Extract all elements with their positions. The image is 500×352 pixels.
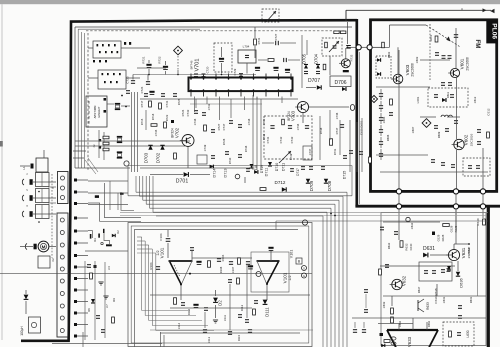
svg-text:C736: C736 [193,118,197,125]
svg-text:D719: D719 [260,165,264,173]
svg-text:V602: V602 [464,134,469,145]
svg-text:R108: R108 [219,266,223,273]
svg-text:V601: V601 [460,58,465,69]
svg-text:L601: L601 [416,96,420,103]
svg-text:D711: D711 [265,168,269,177]
svg-text:C628: C628 [450,225,454,232]
svg-text:V631: V631 [461,247,466,258]
svg-text:R724: R724 [181,109,185,116]
svg-text:C605: C605 [382,116,386,123]
svg-text:D711: D711 [282,163,286,171]
svg-text:C726: C726 [140,86,144,93]
svg-text:L1: L1 [22,166,26,170]
svg-text:R717: R717 [140,100,144,107]
svg-text:R602: R602 [387,51,391,58]
svg-text:R632: R632 [405,243,409,251]
svg-text:R715: R715 [140,118,144,125]
svg-text:L630: L630 [466,330,470,337]
svg-text:BF746: BF746 [190,60,194,69]
svg-text:V101: V101 [283,272,288,283]
svg-text:V702: V702 [175,127,180,138]
svg-text:PL06: PL06 [490,23,497,39]
svg-text:R104: R104 [149,262,153,270]
svg-text:D631: D631 [423,246,435,252]
svg-text:R112: R112 [187,308,191,315]
svg-text:R630: R630 [476,218,480,226]
svg-text:C637: C637 [467,246,471,253]
svg-text:D707: D707 [308,78,320,84]
svg-text:D708: D708 [327,180,332,191]
svg-text:R609: R609 [437,131,441,138]
svg-text:C738: C738 [247,118,251,125]
svg-text:C744: C744 [296,123,300,130]
svg-text:C737: C737 [222,123,226,130]
svg-text:D701: D701 [176,179,189,185]
svg-text:D705: D705 [302,53,307,64]
svg-text:R3: R3 [93,238,97,242]
svg-text:V603: V603 [405,64,410,75]
svg-text:L704: L704 [243,45,250,49]
svg-text:R738: R738 [319,127,323,134]
svg-text:R731: R731 [257,37,261,44]
svg-text:C739: C739 [203,144,207,151]
svg-text:R601: R601 [429,34,433,41]
svg-text:R633: R633 [426,302,430,310]
svg-text:R739: R739 [289,153,293,160]
svg-text:R113: R113 [240,304,244,311]
svg-text:M: M [42,245,46,250]
svg-text:R611: R611 [446,91,450,98]
svg-text:C612: C612 [487,108,491,116]
svg-text:C733: C733 [186,109,190,116]
svg-text:D704: D704 [314,53,319,64]
svg-text:C735: C735 [154,129,158,136]
svg-text:C727: C727 [274,33,278,40]
svg-text:C104: C104 [159,233,163,241]
svg-text:C632: C632 [410,222,414,229]
svg-text:D706: D706 [335,80,347,86]
svg-text:D710: D710 [275,163,279,172]
svg-text:D713: D713 [224,168,228,177]
svg-text:R722: R722 [158,56,162,64]
svg-text:D714: D714 [213,168,217,177]
svg-text:C111: C111 [223,314,227,321]
svg-text:C740: C740 [262,118,266,125]
svg-text:R6: R6 [87,308,91,312]
svg-text:D111: D111 [265,307,270,317]
svg-text:R736: R736 [244,145,248,152]
svg-text:G: G [303,267,305,271]
svg-text:R723: R723 [165,114,169,121]
svg-text:C733: C733 [207,103,211,110]
svg-text:V701: V701 [195,58,201,71]
svg-text:C641: C641 [442,296,446,303]
svg-text:D715: D715 [343,171,347,180]
svg-text:C662: C662 [398,320,402,327]
svg-text:R741: R741 [333,148,337,155]
svg-text:R737: R737 [335,127,339,134]
svg-text:V101: V101 [160,247,165,258]
svg-text:R728: R728 [222,138,226,145]
svg-text:X2: X2 [51,258,55,262]
svg-text:D702: D702 [156,152,161,163]
svg-text:V633: V633 [407,336,412,347]
svg-text:FM: FM [474,40,481,49]
svg-text:C7: C7 [105,304,109,308]
svg-text:100µH: 100µH [20,326,24,336]
svg-text:R641: R641 [469,296,473,303]
svg-text:R727: R727 [217,123,221,130]
svg-text:D636: D636 [459,277,464,287]
svg-text:R733: R733 [350,54,354,61]
svg-text:C743: C743 [290,136,294,143]
svg-text:G: G [303,274,305,278]
svg-text:C742: C742 [279,136,283,143]
svg-text:R628: R628 [441,234,445,241]
svg-text:R662: R662 [427,320,431,327]
svg-text:C746: C746 [335,112,339,119]
svg-text:D712: D712 [275,180,286,185]
svg-text:R632: R632 [387,242,391,249]
svg-text:C741: C741 [266,136,270,143]
svg-text:R730: R730 [228,157,232,164]
svg-text:D2: D2 [218,300,223,306]
svg-text:C4: C4 [107,266,111,270]
svg-text:1/2: 1/2 [288,275,292,280]
svg-text:R115: R115 [237,334,241,341]
svg-text:C113: C113 [207,336,211,343]
svg-text:C629: C629 [437,234,441,241]
svg-text:D717: D717 [296,168,300,176]
svg-text:C723: C723 [126,76,130,84]
svg-text:C731: C731 [165,100,169,107]
svg-text:V101: V101 [290,250,294,258]
svg-text:R725: R725 [177,98,181,105]
svg-text:R606: R606 [386,134,390,141]
svg-text:2SC2668: 2SC2668 [466,57,470,71]
svg-text:C613: C613 [473,96,477,103]
svg-text:BF324: BF324 [171,128,175,138]
svg-text:R9: R9 [112,298,116,302]
svg-text:R718: R718 [151,113,155,120]
svg-text:V632: V632 [402,275,407,286]
svg-text:R732: R732 [262,133,266,140]
svg-text:D703: D703 [144,152,149,163]
svg-text:C112: C112 [177,322,181,329]
svg-text:C607: C607 [411,126,415,133]
svg-text:C630: C630 [409,243,413,250]
svg-text:D709: D709 [309,180,314,191]
svg-text:2SC2668: 2SC2668 [411,63,415,77]
svg-text:R637: R637 [417,286,421,293]
svg-text:2SC2026: 2SC2026 [470,133,474,146]
svg-text:R721: R721 [142,56,146,64]
svg-text:C107: C107 [231,266,235,273]
svg-text:C610 D601: C610 D601 [360,120,364,135]
svg-text:C603: C603 [415,56,419,63]
svg-text:R2: R2 [116,230,120,234]
svg-text:EINHEIT: EINHEIT [97,106,101,117]
svg-text:C747: C747 [308,148,312,155]
svg-text:C720: C720 [206,66,210,73]
svg-text:C643: C643 [382,301,386,308]
